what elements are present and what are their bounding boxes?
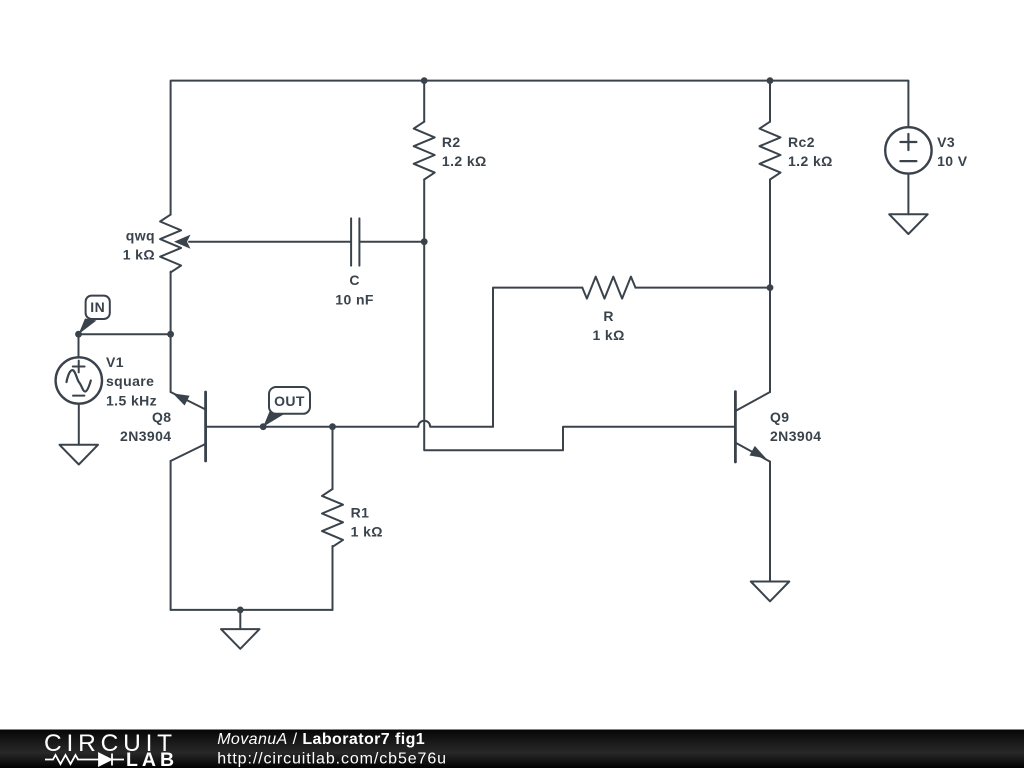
- voltage source V1 circle: [56, 357, 102, 403]
- transistor Q9 base bar: [734, 392, 737, 462]
- junction dot top rail R2: [421, 77, 428, 84]
- transistor Q8 emitter: [171, 392, 206, 410]
- flag OUT: [263, 387, 310, 427]
- svg-text:Rc21.2 kΩ: Rc21.2 kΩ: [788, 134, 833, 169]
- wire C right lead: [359, 241, 424, 243]
- resistor Rc2: [760, 122, 781, 180]
- transistor Q8 base bar: [204, 392, 207, 461]
- wire R1 top lead: [332, 427, 334, 489]
- svg-text:Q92N3904: Q92N3904: [770, 409, 821, 444]
- flag IN: [79, 296, 110, 335]
- junction dot IN node: [75, 331, 82, 338]
- wire R2 bottom to C junction and down to bypass: [424, 180, 734, 451]
- potentiometer qwq: [160, 215, 181, 273]
- capacitor C right plate: [358, 218, 360, 265]
- resistor R1: [322, 489, 343, 547]
- wire qwq bottom to Q8 emitter: [170, 272, 172, 392]
- wire V1 bottom lead: [78, 404, 80, 445]
- ground stem bottom: [239, 610, 241, 629]
- voltage source V1 sine glyph: [67, 370, 91, 391]
- svg-text:OUT: OUT: [274, 393, 305, 409]
- wire Rc2 bottom to Q9 collector: [769, 180, 771, 392]
- Q8 emitter arrowhead: [173, 393, 190, 405]
- svg-text:qwq1 kΩ: qwq1 kΩ: [123, 228, 155, 263]
- voltage source V3 minus sign: [900, 160, 916, 162]
- ground below V3: [889, 214, 928, 234]
- resistor R2: [414, 122, 435, 180]
- svg-text:V310 V: V310 V: [937, 134, 968, 169]
- Q9 emitter arrowhead: [750, 446, 767, 459]
- voltage source V3 circle: [885, 127, 931, 173]
- CircuitLab logo wordmark: [44, 730, 178, 768]
- wire top rail: [171, 81, 909, 215]
- ground below V1: [60, 445, 99, 465]
- wire R left lead: [493, 288, 582, 427]
- junction dot top rail Rc2: [767, 77, 774, 84]
- svg-text:http://circuitlab.com/cb5e76u: http://circuitlab.com/cb5e76u: [217, 751, 447, 768]
- wire R right lead: [636, 287, 771, 289]
- qwq wiper arrowhead: [174, 235, 191, 249]
- junction dot R1 top: [329, 423, 336, 430]
- wire Rc2 top lead: [769, 81, 771, 122]
- wire Q9 emitter down: [769, 462, 771, 582]
- resistor R: [582, 277, 635, 299]
- ground below Q9: [751, 582, 790, 602]
- junction dot R Rc2 node: [767, 284, 774, 291]
- wire Q8 collector rail with hop: [206, 421, 493, 427]
- junction dot left wire: [167, 331, 174, 338]
- junction dot ground rail: [237, 607, 244, 614]
- transistor Q9 emitter: [735, 443, 770, 462]
- capacitor C left plate: [350, 218, 352, 265]
- svg-text:V1square1.5 kHz: V1square1.5 kHz: [106, 354, 157, 408]
- wire IN node: [79, 333, 171, 335]
- transistor Q9 collector: [735, 392, 770, 411]
- wire bottom ground rail: [171, 609, 333, 611]
- wire qwq wiper to capacitor: [189, 241, 351, 243]
- wire V1 top lead: [78, 334, 80, 357]
- CircuitLab logo resistor-diode glyph: [45, 754, 124, 766]
- svg-text:R21.2 kΩ: R21.2 kΩ: [442, 134, 487, 169]
- wire Q8 collector down: [170, 461, 172, 610]
- ground below bottom rail: [221, 629, 260, 649]
- voltage source V1 minus sign: [73, 395, 84, 397]
- svg-text:R1 kΩ: R1 kΩ: [592, 308, 624, 343]
- svg-text:Q82N3904: Q82N3904: [120, 409, 171, 444]
- svg-text:IN: IN: [90, 299, 105, 315]
- junction dot C R2 node: [421, 238, 428, 245]
- wire V3 bottom lead: [907, 174, 909, 215]
- svg-text:C10 nF: C10 nF: [335, 272, 374, 307]
- voltage source V3 plus sign: [900, 134, 916, 150]
- wire R1 bottom lead: [332, 546, 334, 610]
- transistor Q8 collector: [171, 444, 206, 461]
- svg-text:R11 kΩ: R11 kΩ: [351, 504, 383, 539]
- svg-text:LAB: LAB: [126, 749, 178, 768]
- wire R2 top lead: [423, 81, 425, 122]
- junction dot OUT node: [260, 423, 267, 430]
- voltage source V1 plus sign: [73, 361, 85, 373]
- svg-text:MovanuA / Laborator7 fig1: MovanuA / Laborator7 fig1: [217, 731, 425, 748]
